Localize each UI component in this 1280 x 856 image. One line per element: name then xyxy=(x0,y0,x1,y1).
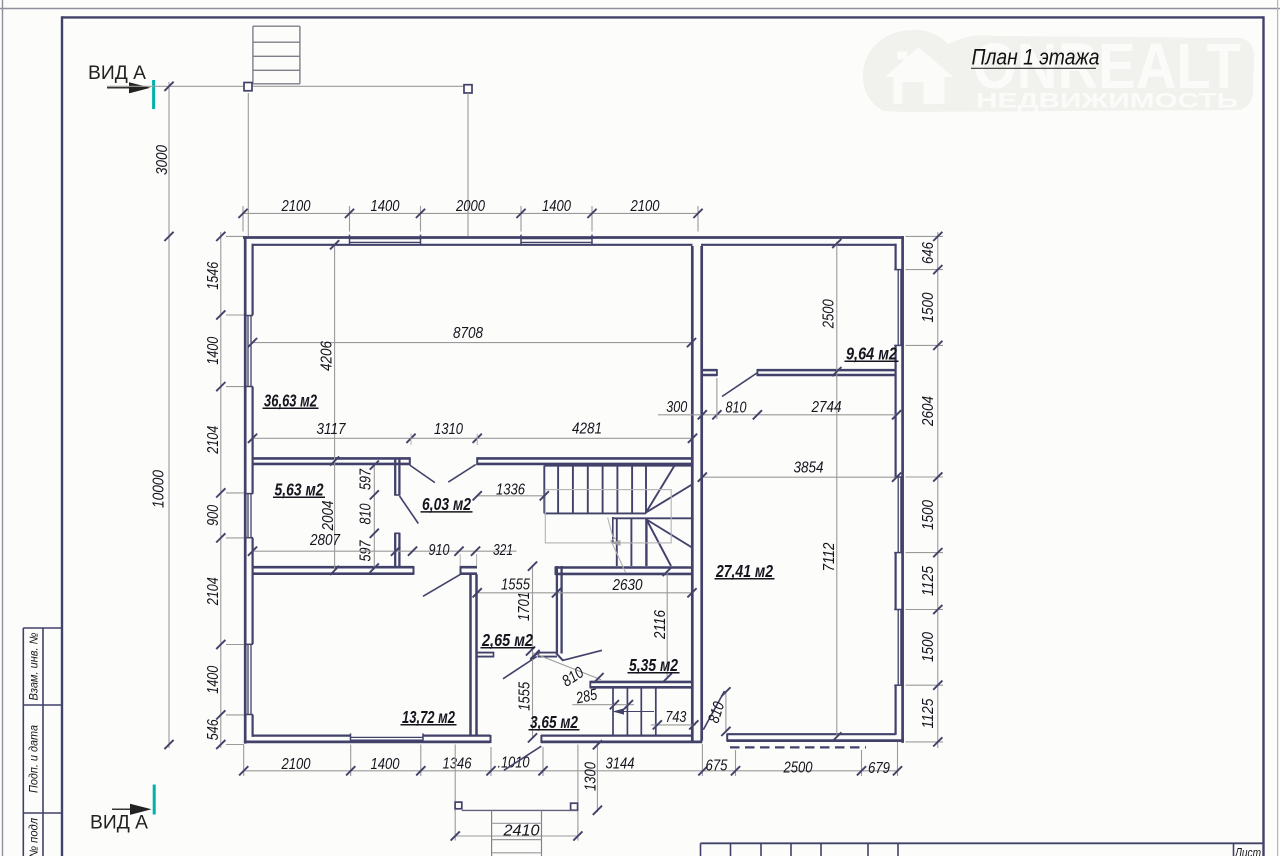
svg-text:1546: 1546 xyxy=(205,262,222,290)
dim 597 upper xyxy=(358,468,375,490)
porch line bottom xyxy=(462,809,578,811)
dim left 900 xyxy=(205,505,222,526)
dim line 810 diag xyxy=(533,653,601,680)
door leaf 5.35 (810) xyxy=(563,650,602,660)
dim 2116 xyxy=(652,610,669,640)
dim line 1300 xyxy=(596,742,598,812)
wall bottom outer face xyxy=(244,741,491,744)
svg-text:3144: 3144 xyxy=(606,755,635,772)
dim 10000 xyxy=(150,470,167,508)
window right wall 1500 in 9.64 xyxy=(897,270,899,346)
dim line 2410 xyxy=(454,745,456,841)
svg-text:2500: 2500 xyxy=(821,299,838,329)
svg-text:НЕДВИЖИМОСТЬ: НЕДВИЖИМОСТЬ xyxy=(976,90,1238,113)
dim 7112 xyxy=(821,542,838,571)
svg-text:1555: 1555 xyxy=(516,682,533,711)
wall H4 (room 5.35 bottom) xyxy=(590,681,692,684)
wall H1 segment A (room 5.63 top) xyxy=(253,457,410,460)
svg-text:7112: 7112 xyxy=(821,542,838,571)
svg-text:1500: 1500 xyxy=(920,292,937,322)
svg-text:1400: 1400 xyxy=(371,198,400,215)
svg-text:4206: 4206 xyxy=(318,341,335,371)
porch witness right xyxy=(467,93,469,236)
label Vzam inv xyxy=(29,632,41,701)
window left wall 1400 lower xyxy=(247,644,249,714)
svg-text:679: 679 xyxy=(868,760,890,777)
svg-text:№ подл: № подл xyxy=(29,818,41,856)
svg-text:3000: 3000 xyxy=(154,145,171,175)
porch post bottom-left xyxy=(455,802,462,809)
door leaf entrance (1010) xyxy=(504,746,541,770)
svg-text:1500: 1500 xyxy=(920,632,937,662)
porch line top xyxy=(107,85,468,87)
door leaf 9.64 (810) xyxy=(722,373,758,397)
svg-text:Лист: Лист xyxy=(1234,845,1261,856)
svg-text:36,63 м2: 36,63 м2 xyxy=(264,390,317,410)
svg-text:1125: 1125 xyxy=(920,698,937,728)
svg-text:1336: 1336 xyxy=(496,482,525,499)
dim line 2500-7112 xyxy=(836,242,838,737)
dim line 1555-2630 xyxy=(477,592,692,594)
dim 4206 xyxy=(318,341,335,371)
dim 810 diag label xyxy=(559,664,587,690)
dim 1701 xyxy=(516,592,533,621)
outer border right xyxy=(1277,0,1279,856)
dim right 1500 xyxy=(920,632,937,662)
stairs upper flight xyxy=(544,465,692,467)
dim 810 rot xyxy=(706,700,729,725)
title underline xyxy=(971,67,1096,69)
svg-text:3117: 3117 xyxy=(317,421,347,438)
svg-text:2807: 2807 xyxy=(309,532,341,549)
wall H5 segment (9.64 bottom) xyxy=(757,369,895,372)
dim line outer-left xyxy=(168,82,170,748)
label Podp i data xyxy=(29,725,41,793)
svg-text:8708: 8708 xyxy=(453,325,483,342)
svg-text:2604: 2604 xyxy=(920,396,937,427)
door leaf double left (1310) xyxy=(410,465,435,483)
svg-text:2004: 2004 xyxy=(320,500,337,531)
window bottom wall 1400 xyxy=(351,736,424,738)
dividing wall west face xyxy=(691,246,694,741)
dim line 8708 xyxy=(253,342,692,344)
dim line left column xyxy=(220,232,222,748)
svg-text:3,65 м2: 3,65 м2 xyxy=(530,712,578,732)
svg-text:ВИД А: ВИД А xyxy=(90,812,148,834)
dim line 743 xyxy=(651,724,696,726)
door leaf 2.65 (810) xyxy=(503,657,537,679)
inner entrance steps room 3.65 xyxy=(612,688,614,736)
stairs direction arrowhead xyxy=(610,540,621,546)
svg-text:910: 910 xyxy=(429,542,450,559)
svg-text:2100: 2100 xyxy=(281,756,311,773)
svg-text:Подп. и дата: Подп. и дата xyxy=(29,725,41,793)
door leaf 5.63 (810) xyxy=(400,496,419,524)
stairs break line xyxy=(608,518,626,573)
svg-text:1400: 1400 xyxy=(542,198,571,215)
dim line 810 door 27.41 xyxy=(725,691,727,733)
dim 597 lower xyxy=(358,540,375,562)
stairs lower flight xyxy=(612,517,614,544)
door leaf 27.41 (810) xyxy=(703,691,724,730)
wall left outer face xyxy=(244,236,247,743)
stairs fan upper xyxy=(646,466,674,513)
svg-text:2104: 2104 xyxy=(205,426,222,455)
svg-text:2104: 2104 xyxy=(205,577,222,606)
svg-text:2410: 2410 xyxy=(502,823,539,840)
title block bottom row xyxy=(701,842,1264,844)
svg-text:1310: 1310 xyxy=(434,421,463,438)
left strip cells xyxy=(22,628,24,856)
stairs fan lower xyxy=(647,520,693,548)
svg-text:597: 597 xyxy=(358,468,375,490)
svg-text:1500: 1500 xyxy=(920,500,937,530)
porch post top-right xyxy=(464,85,472,93)
dim line right column xyxy=(937,232,939,748)
frame top xyxy=(62,16,1264,18)
wall H2 segment A (room 13.72 top) xyxy=(253,566,414,569)
svg-text:5,35 м2: 5,35 м2 xyxy=(629,655,678,675)
dim 3000 xyxy=(154,145,171,175)
wall top outer face xyxy=(243,236,904,239)
wall V3 (room 5.35 left) with chamfer xyxy=(556,566,558,654)
dividing wall east face xyxy=(700,246,703,741)
wall right inner face xyxy=(894,244,896,270)
dim line top row xyxy=(243,212,698,214)
svg-text:6,03 м2: 6,03 м2 xyxy=(422,494,471,514)
svg-text:2116: 2116 xyxy=(652,610,669,640)
window left wall 900 xyxy=(247,494,249,538)
dim 1555 v xyxy=(516,682,533,711)
wall bottom inner face xyxy=(252,734,351,736)
dim right 1125 xyxy=(920,566,937,596)
dim line 597-810-597 xyxy=(373,465,375,568)
wall left inner face xyxy=(252,244,254,315)
top entrance stairs xyxy=(253,25,300,27)
frame left xyxy=(61,16,63,856)
dim 2004 xyxy=(320,500,337,531)
bottom entrance steps xyxy=(491,810,493,856)
wall V1 (room 5.63 right) xyxy=(394,459,396,495)
dim line 285 xyxy=(572,704,634,706)
wall stub S1 xyxy=(477,652,494,654)
dim left 2104 xyxy=(205,577,222,606)
dim line 300-810-2744 xyxy=(658,414,897,416)
dim line 3117-1310-4281 xyxy=(253,437,694,439)
porch post bottom-right xyxy=(571,803,578,810)
svg-text:300: 300 xyxy=(666,399,687,416)
svg-text:2100: 2100 xyxy=(281,198,311,215)
dim 810 v xyxy=(358,503,375,524)
window right wall 1500 lower in 27.41 xyxy=(897,610,899,686)
dim right 1500 xyxy=(920,500,937,530)
frame right xyxy=(1262,16,1264,856)
svg-text:10000: 10000 xyxy=(150,470,167,508)
wall H5 stub (9.64 bottom west) xyxy=(703,369,717,372)
svg-text:1555: 1555 xyxy=(501,577,530,594)
wall top inner face right xyxy=(701,244,897,246)
svg-text:1346: 1346 xyxy=(443,756,472,773)
stairs landing edge xyxy=(613,517,692,519)
dim line bottom row xyxy=(244,770,898,772)
wall stub S2 xyxy=(539,652,558,654)
dim 2500 v xyxy=(821,299,838,329)
svg-text:646: 646 xyxy=(920,242,937,264)
svg-text:2000: 2000 xyxy=(455,198,485,215)
dim 285 xyxy=(574,686,599,707)
wall H2 segment B (corner) xyxy=(461,566,478,569)
watermark blob xyxy=(863,30,1254,112)
svg-text:2100: 2100 xyxy=(630,198,660,215)
dim line 1701-1555v xyxy=(532,565,534,738)
dim left 546 xyxy=(205,719,222,740)
dashed canopy line xyxy=(730,746,866,748)
dim left 2104 xyxy=(205,426,222,455)
svg-text:2500: 2500 xyxy=(783,759,813,776)
svg-text:2744: 2744 xyxy=(811,399,842,416)
svg-text:План 1 этажа: План 1 этажа xyxy=(972,44,1100,69)
dim line 2807-910-321 xyxy=(253,550,517,552)
wall H1 segment B (corridor top) xyxy=(477,457,692,460)
dim line 1336 xyxy=(477,495,544,497)
stairs well outline xyxy=(545,490,671,543)
dim right 1500 xyxy=(920,292,937,322)
wall V2 west face xyxy=(469,574,472,736)
window left wall 1400 upper xyxy=(247,316,249,387)
svg-text:ВИД А: ВИД А xyxy=(88,62,146,84)
door leaf 13.72 (910) xyxy=(423,574,461,596)
svg-text:Взам. инв. №: Взам. инв. № xyxy=(29,632,41,701)
svg-text:9,64 м2: 9,64 м2 xyxy=(846,343,897,363)
porch post top-left xyxy=(244,83,252,91)
wall V2 east face xyxy=(475,574,478,736)
dim right 1125 xyxy=(920,698,937,728)
svg-text:1400: 1400 xyxy=(371,756,400,773)
door leaf double right (1310) xyxy=(448,465,476,483)
svg-text:2630: 2630 xyxy=(612,577,643,594)
dim right 2604 xyxy=(920,396,937,427)
svg-text:4281: 4281 xyxy=(572,421,602,438)
window right wall 1500 upper in 27.41 xyxy=(897,477,899,553)
svg-text:3854: 3854 xyxy=(794,460,824,477)
dim line 2116 xyxy=(666,571,668,678)
wall H3 (room 5.35 top) xyxy=(556,566,692,569)
dim left 1546 xyxy=(205,262,222,290)
view mark A bottom arrow xyxy=(112,808,147,810)
svg-text:1701: 1701 xyxy=(516,592,533,621)
dim right 646 xyxy=(920,242,937,264)
svg-text:2,65 м2: 2,65 м2 xyxy=(481,630,533,650)
window top wall 1400 left xyxy=(350,238,421,240)
outer border left xyxy=(2,0,4,856)
svg-text:1400: 1400 xyxy=(205,337,222,365)
dim left 1400 xyxy=(205,666,222,694)
dim left 1400 xyxy=(205,337,222,365)
svg-text:1400: 1400 xyxy=(205,666,222,694)
svg-text:27,41 м2: 27,41 м2 xyxy=(715,561,773,581)
dim line 4206-2004 xyxy=(334,245,336,571)
wall right outer face xyxy=(901,236,904,743)
outer border top xyxy=(0,8,1280,10)
svg-text:1125: 1125 xyxy=(920,566,937,596)
porch witness left xyxy=(247,93,249,236)
svg-text:597: 597 xyxy=(358,540,375,562)
svg-text:900: 900 xyxy=(205,505,222,526)
svg-text:13,72 м2: 13,72 м2 xyxy=(402,707,455,727)
svg-text:321: 321 xyxy=(493,542,513,559)
svg-text:5,63 м2: 5,63 м2 xyxy=(275,479,324,499)
wall top inner face left xyxy=(252,244,693,246)
svg-text:810: 810 xyxy=(726,400,747,417)
dim 1300 xyxy=(582,762,599,791)
label N podl xyxy=(29,818,41,856)
svg-text:743: 743 xyxy=(665,709,686,726)
svg-text:810: 810 xyxy=(358,503,375,524)
dim line 3854 xyxy=(702,476,897,478)
view mark A top arrow xyxy=(107,87,146,89)
window top wall 1400 right xyxy=(521,238,592,240)
svg-text:1300: 1300 xyxy=(582,762,599,791)
svg-text:675: 675 xyxy=(706,757,728,774)
svg-text:546: 546 xyxy=(205,719,222,740)
watermark house cutout xyxy=(885,47,953,104)
